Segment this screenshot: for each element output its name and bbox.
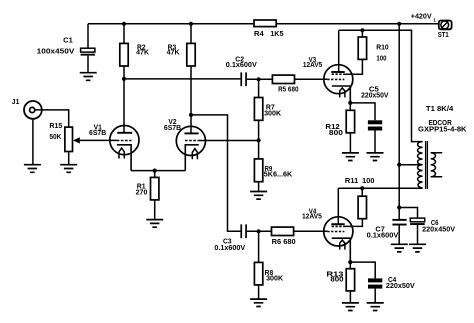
svg-text:800: 800 — [329, 130, 343, 137]
svg-text:12AV5: 12AV5 — [302, 213, 322, 220]
label R1 270 — [136, 183, 148, 196]
label C6 220x450V — [422, 220, 455, 233]
svg-text:270: 270 — [136, 190, 148, 197]
label R10 100 — [376, 44, 389, 62]
svg-text:C1: C1 — [63, 37, 73, 44]
svg-text:6S7B: 6S7B — [89, 130, 106, 137]
resistor R12 — [346, 103, 354, 153]
label R6 680 — [272, 239, 296, 246]
label R7 300K — [264, 104, 281, 117]
node C2/R7 junction — [257, 77, 261, 81]
svg-text:47K: 47K — [167, 50, 180, 57]
svg-text:0.1x600V: 0.1x600V — [367, 233, 399, 240]
label J1 — [12, 99, 20, 106]
svg-text:R11: R11 — [345, 178, 358, 185]
potentiometer R15 — [65, 127, 117, 165]
svg-text:ST1: ST1 — [438, 32, 449, 39]
tube V3 — [324, 30, 363, 103]
svg-text:50K: 50K — [49, 134, 61, 141]
node R11 top junction — [360, 186, 364, 190]
resistor R10 — [358, 30, 366, 59]
svg-text:300K: 300K — [266, 276, 283, 283]
svg-text:R6 680: R6 680 — [272, 239, 296, 246]
label R13 800 — [326, 271, 343, 283]
wire V3 plate line — [339, 30, 423, 141]
resistor R13 — [346, 262, 354, 303]
tube V1 — [110, 126, 139, 171]
wire V1 plate lead — [123, 79, 125, 132]
node cathode/R1 junction — [153, 169, 157, 173]
resistor R6 — [272, 227, 328, 235]
capacitor C4 — [368, 278, 382, 303]
resistor R2 — [120, 24, 128, 79]
capacitor C5 — [368, 120, 382, 153]
node V4 cathode junction — [348, 260, 352, 264]
node rail/R2 junction — [122, 22, 126, 26]
label V3 12AV5 — [303, 57, 322, 69]
capacitor C2 — [240, 72, 247, 86]
ground C1 — [80, 73, 97, 81]
wire to C6 — [399, 208, 417, 219]
ground C6 — [409, 244, 426, 252]
label +420V net — [411, 14, 437, 23]
label R15 50K — [49, 123, 62, 141]
capacitor C3 — [240, 224, 247, 238]
resistor R7 — [254, 79, 262, 159]
wire B+ drop to center tap — [398, 24, 400, 208]
svg-text:R15: R15 — [49, 123, 62, 130]
node rail/center-tap junction — [397, 22, 401, 26]
svg-text:R10: R10 — [376, 44, 389, 51]
ground R9 — [250, 192, 267, 200]
label T1 8K/4 — [426, 106, 453, 113]
wire to C5 — [350, 103, 375, 120]
svg-text:220x50V: 220x50V — [386, 283, 415, 290]
label V4 12AV5 — [302, 208, 322, 220]
svg-text:1K5: 1K5 — [270, 31, 283, 38]
svg-text:0.1x600V: 0.1x600V — [214, 245, 245, 252]
label R3 47K — [167, 44, 180, 56]
wire C1 drop from rail — [87, 24, 89, 48]
ground R1 — [146, 220, 163, 228]
ground C5 — [367, 153, 384, 161]
svg-text:5K6...6K: 5K6...6K — [264, 172, 293, 179]
label ST1 — [438, 32, 449, 39]
node rail/R3 junction — [189, 22, 193, 26]
label R11 100 — [345, 178, 375, 185]
wire V1 plate to C2 — [124, 78, 240, 80]
label EDCOR — [418, 120, 467, 134]
capacitor C6 — [410, 218, 425, 244]
ground R13 — [342, 303, 359, 311]
label R2 47K — [136, 44, 149, 56]
svg-text:220x450V: 220x450V — [422, 227, 455, 234]
node R10 top junction — [360, 28, 364, 32]
node C3/R8 junction — [257, 229, 261, 233]
resistor R11 — [358, 188, 366, 219]
wire C3 to R6 — [247, 230, 272, 232]
resistor R3 — [187, 24, 195, 115]
capacitor C7 — [392, 208, 406, 245]
label C5 220x50V — [361, 87, 389, 100]
node center tap junction — [397, 163, 401, 167]
label R4 1K5 — [254, 31, 284, 38]
node V2 plate junction — [189, 113, 193, 117]
wire V2 grid — [199, 140, 259, 142]
label C7 0.1x600V — [367, 226, 399, 239]
tube V2 — [176, 115, 205, 171]
svg-text:6S7B: 6S7B — [164, 125, 181, 132]
svg-text:R4: R4 — [254, 31, 264, 38]
label C2 0.1x600V — [226, 56, 257, 69]
svg-text:47K: 47K — [136, 50, 149, 57]
svg-text:300K: 300K — [264, 111, 281, 118]
label R5 680 — [278, 86, 298, 93]
connector J1 — [24, 101, 69, 165]
label C1 — [37, 37, 75, 55]
svg-text:R5 680: R5 680 — [278, 86, 298, 93]
resistor R4 — [254, 20, 276, 27]
wire cathode join V1-V2 — [131, 170, 185, 172]
resistor R5 — [272, 75, 327, 83]
ground R12 — [342, 153, 359, 161]
svg-text:T1 8K/4: T1 8K/4 — [426, 106, 453, 113]
label C4 220x50V — [386, 277, 415, 290]
ground J1 — [24, 165, 41, 173]
wire C2 to R5 — [247, 78, 273, 80]
svg-text:800: 800 — [330, 277, 343, 284]
ground R15 — [60, 165, 77, 173]
node C7 junction — [397, 205, 401, 209]
wire center tap — [399, 164, 419, 166]
wire B+ top rail — [88, 23, 439, 25]
svg-text:12AV5: 12AV5 — [303, 62, 322, 69]
capacitor C1 — [81, 48, 95, 72]
svg-text:0.1x600V: 0.1x600V — [226, 62, 257, 69]
wire to C4 — [350, 262, 375, 278]
connector ST1 — [439, 21, 452, 30]
svg-text:100: 100 — [362, 178, 374, 185]
resistor R9 — [254, 159, 262, 192]
label C3 0.1x600V — [214, 238, 245, 252]
label R12 800 — [325, 124, 343, 137]
node V1 plate junction — [122, 77, 126, 81]
resistor R1 — [151, 171, 159, 220]
label V2 6S7B — [164, 119, 181, 132]
wire V4 plate line — [338, 187, 422, 189]
svg-text:100: 100 — [376, 56, 386, 63]
svg-text:100x450V: 100x450V — [37, 49, 75, 56]
svg-text:220x50V: 220x50V — [361, 92, 389, 99]
ground C7 — [391, 244, 408, 252]
node R7/R9/V2-grid junction — [257, 138, 261, 142]
svg-text:J1: J1 — [12, 99, 20, 106]
svg-text:+420V: +420V — [411, 14, 432, 21]
svg-text:1: 1 — [433, 17, 436, 22]
resistor R8 — [254, 231, 262, 299]
svg-text:GXPP15-4-8K: GXPP15-4-8K — [418, 127, 467, 134]
ground R8 — [250, 299, 267, 306]
ground C4 — [367, 303, 384, 311]
transformer T1 — [418, 141, 443, 189]
wire V2 plate branch — [191, 115, 240, 231]
tube V4 — [324, 188, 363, 262]
label V1 6S7B — [89, 124, 106, 137]
node V3 cathode junction — [348, 101, 352, 105]
label R8 300K — [265, 270, 283, 283]
label R9 5K6...6K — [264, 166, 293, 179]
